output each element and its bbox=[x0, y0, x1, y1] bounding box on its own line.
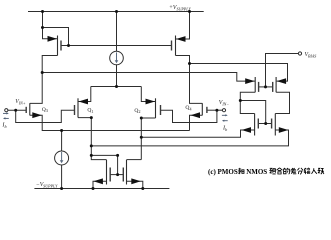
svg-text:VIN+: VIN+ bbox=[15, 99, 26, 106]
svg-text:VIN−: VIN− bbox=[219, 100, 230, 107]
svg-text:NMOS: NMOS bbox=[246, 168, 267, 176]
svg-text:Q3: Q3 bbox=[42, 107, 48, 113]
svg-text:Q4: Q4 bbox=[185, 105, 191, 111]
svg-text:Q1: Q1 bbox=[87, 108, 93, 114]
svg-text:VBIAS: VBIAS bbox=[305, 52, 317, 59]
svg-text:(c) PMOS: (c) PMOS bbox=[208, 168, 238, 176]
svg-text:−VSUPPLY: −VSUPPLY bbox=[36, 182, 58, 189]
svg-text:+VSUPPLY: +VSUPPLY bbox=[169, 5, 191, 12]
svg-text:Q2: Q2 bbox=[134, 108, 140, 114]
